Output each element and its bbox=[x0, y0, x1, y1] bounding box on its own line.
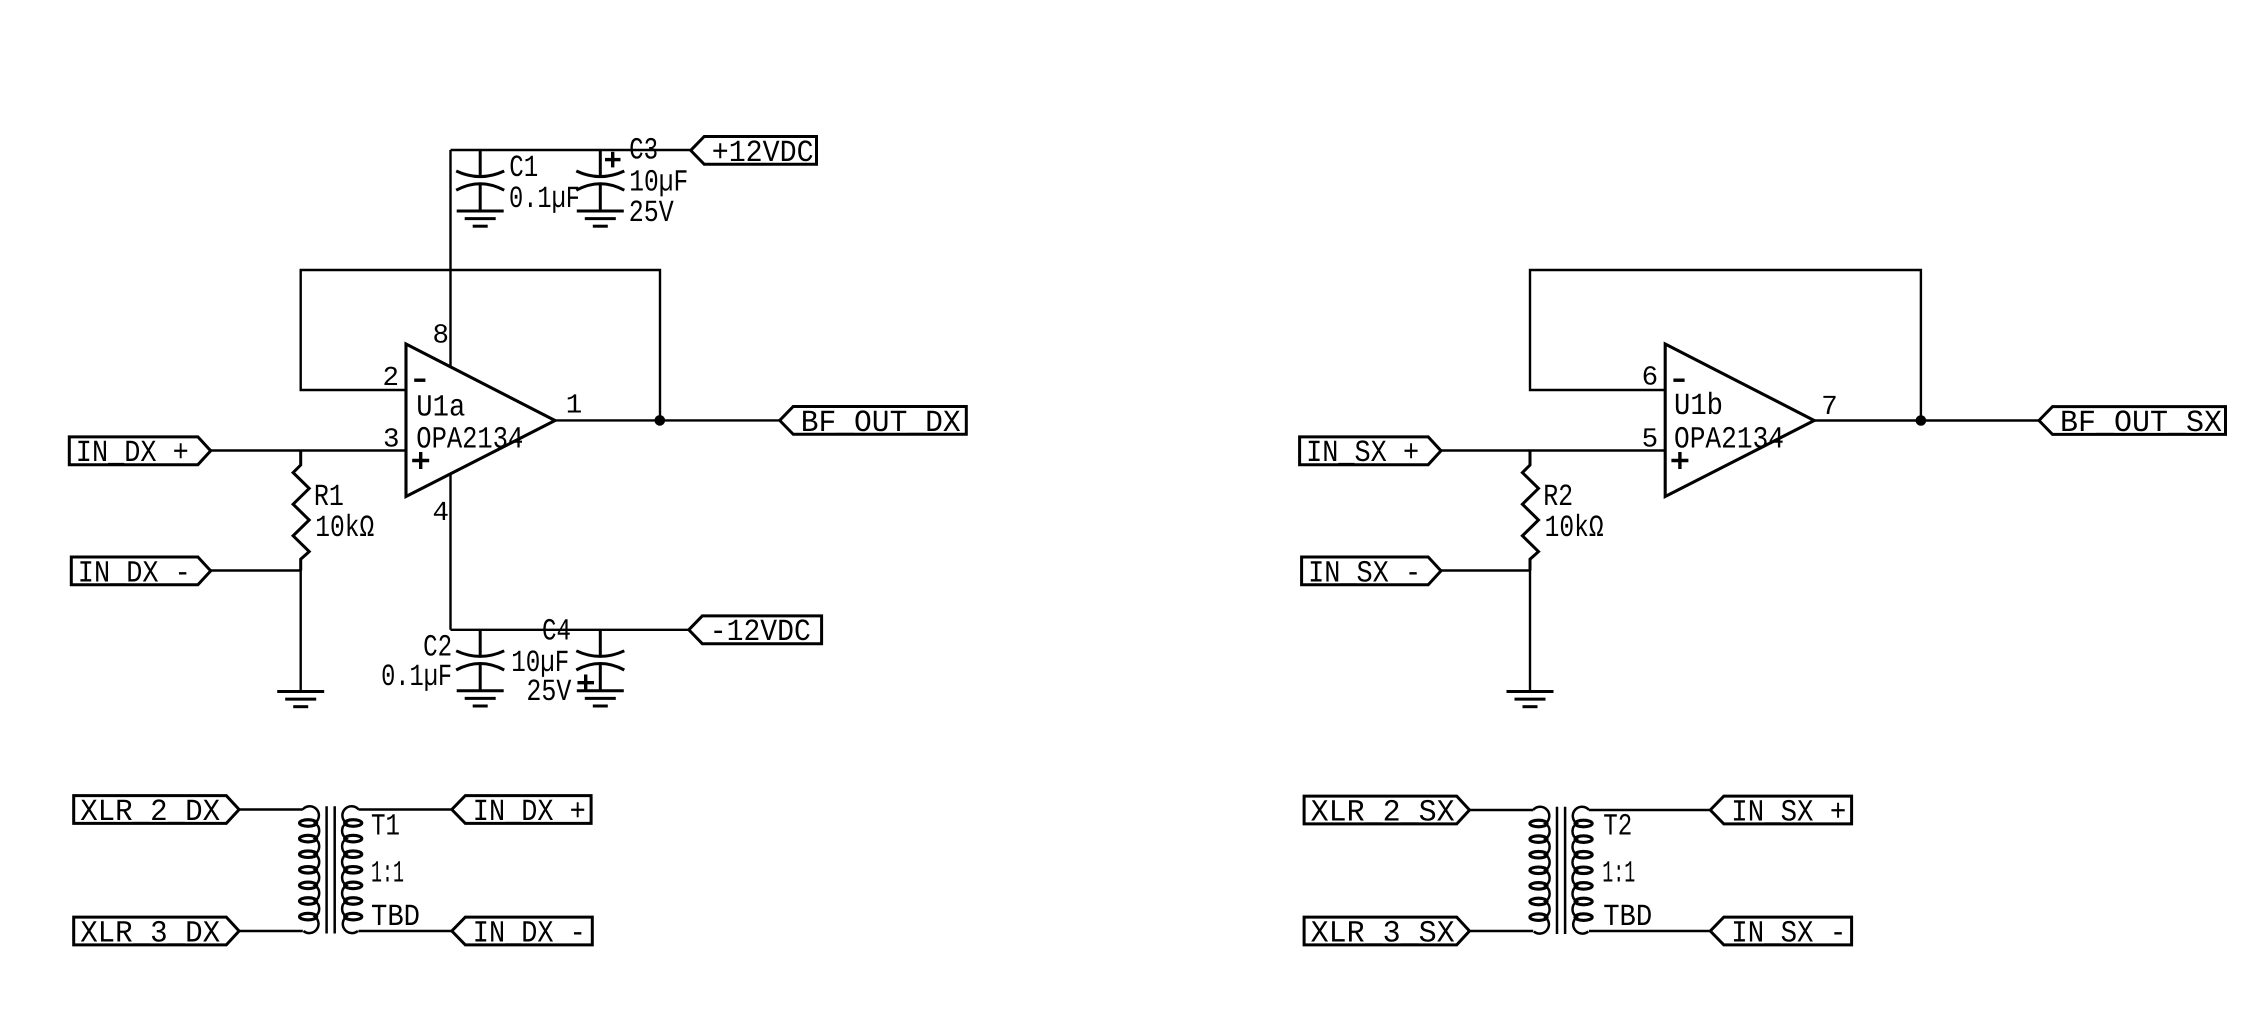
wire V- pin 4 supply bbox=[449, 473, 451, 629]
net BF_OUT_DX bbox=[780, 407, 967, 435]
wire feedback loop U1a bbox=[301, 270, 660, 420]
svg-text:1:1: 1:1 bbox=[371, 856, 404, 891]
svg-text:OPA2134: OPA2134 bbox=[1674, 423, 1784, 458]
polarity + mark of C4 bbox=[578, 675, 595, 691]
svg-text:U1a: U1a bbox=[416, 390, 465, 425]
wire T1 secondary bottom to IN_DX- bbox=[359, 930, 452, 932]
svg-text:OPA2134: OPA2134 bbox=[416, 423, 523, 458]
svg-text:XLR_2_DX: XLR_2_DX bbox=[80, 795, 220, 830]
transformer T2 bbox=[1530, 807, 1592, 934]
op-amp U1a bbox=[406, 344, 555, 497]
ground (R1) bbox=[277, 692, 324, 707]
svg-text:0.1µF: 0.1µF bbox=[509, 182, 580, 217]
svg-text:XLR_3_DX: XLR_3_DX bbox=[80, 916, 220, 951]
wire IN_DX- to R1 bbox=[211, 569, 301, 571]
ground (C2) bbox=[457, 691, 504, 706]
net IN_DX + (transformer) bbox=[452, 796, 591, 824]
svg-text:0.1µF: 0.1µF bbox=[381, 660, 452, 695]
svg-text:25V: 25V bbox=[629, 196, 674, 231]
svg-text:1: 1 bbox=[566, 391, 583, 422]
wire XLR_3_DX to T1 primary bottom bbox=[239, 930, 303, 932]
op-amp U1b bbox=[1665, 344, 1814, 497]
net XLR_2_DX bbox=[74, 796, 239, 824]
ground (C3) bbox=[577, 211, 624, 226]
net XLR_3_SX bbox=[1304, 917, 1469, 945]
net XLR_2_SX bbox=[1304, 796, 1469, 824]
svg-text:TBD: TBD bbox=[1603, 900, 1652, 935]
wire XLR_2_DX to T1 primary top bbox=[239, 808, 303, 810]
junction output node SX bbox=[1916, 415, 1927, 426]
svg-text:1:1: 1:1 bbox=[1602, 856, 1635, 891]
net IN_DX + (op-amp input) bbox=[69, 437, 210, 465]
wire XLR_3_SX to T2 primary bottom bbox=[1470, 930, 1534, 932]
wire IN_DX+ to pin 3 bbox=[211, 449, 406, 451]
svg-text:IN_SX -: IN_SX - bbox=[1308, 556, 1421, 591]
net IN_SX - (transformer) bbox=[1710, 917, 1851, 945]
wire XLR_2_SX to T2 primary top bbox=[1470, 809, 1534, 811]
svg-text:BF_OUT_SX: BF_OUT_SX bbox=[2060, 406, 2222, 441]
svg-text:BF_OUT_DX: BF_OUT_DX bbox=[801, 406, 961, 441]
net XLR_3_DX bbox=[74, 917, 239, 945]
wire T1 secondary top to IN_DX+ bbox=[359, 808, 452, 810]
svg-text:IN_DX -: IN_DX - bbox=[78, 556, 191, 591]
svg-text:IN_SX +: IN_SX + bbox=[1731, 795, 1846, 830]
wire IN_SX- to R2 bbox=[1441, 569, 1530, 571]
svg-text:R2: R2 bbox=[1543, 480, 1573, 515]
ground (R2) bbox=[1507, 692, 1554, 707]
net IN_DX - (transformer) bbox=[452, 917, 593, 945]
svg-text:C1: C1 bbox=[509, 151, 538, 186]
capacitor C4 (polarized) bbox=[576, 630, 624, 691]
wire output pin 1 to BF_OUT_DX bbox=[555, 419, 780, 421]
svg-text:IN_DX +: IN_DX + bbox=[76, 436, 189, 471]
svg-text:C3: C3 bbox=[629, 133, 658, 168]
wire -12V bottom rail bbox=[451, 629, 689, 631]
svg-text:4: 4 bbox=[432, 498, 449, 529]
wire output pin 7 to BF_OUT_SX bbox=[1814, 419, 2039, 421]
svg-text:-12VDC: -12VDC bbox=[710, 615, 811, 650]
svg-text:+12VDC: +12VDC bbox=[712, 136, 814, 171]
net +12VDC bbox=[691, 137, 817, 165]
svg-text:T1: T1 bbox=[371, 810, 400, 845]
svg-text:IN_SX +: IN_SX + bbox=[1306, 436, 1419, 471]
wire T2 secondary top to IN_SX+ bbox=[1589, 809, 1710, 811]
svg-text:8: 8 bbox=[432, 321, 449, 352]
ground (C1) bbox=[457, 211, 504, 226]
resistor R1 bbox=[293, 451, 309, 692]
wire T2 secondary bottom to IN_SX- bbox=[1589, 930, 1710, 932]
svg-text:6: 6 bbox=[1642, 363, 1659, 394]
wire IN_SX+ to pin 5 bbox=[1441, 449, 1665, 451]
svg-text:TBD: TBD bbox=[371, 900, 420, 935]
ground (C4) bbox=[577, 691, 624, 706]
svg-text:XLR_2_SX: XLR_2_SX bbox=[1311, 795, 1455, 830]
svg-text:IN_DX +: IN_DX + bbox=[473, 795, 586, 830]
svg-text:2: 2 bbox=[382, 363, 399, 394]
net BF_OUT_SX bbox=[2039, 407, 2226, 435]
resistor R2 bbox=[1522, 451, 1538, 692]
capacitor C3 (polarized) bbox=[576, 150, 624, 211]
net -12VDC bbox=[689, 616, 822, 644]
svg-text:IN_DX -: IN_DX - bbox=[473, 916, 586, 951]
svg-text:C4: C4 bbox=[542, 615, 571, 650]
svg-text:R1: R1 bbox=[314, 480, 344, 515]
svg-text:IN_SX -: IN_SX - bbox=[1731, 916, 1846, 951]
net IN_SX + (op-amp input) bbox=[1300, 437, 1441, 465]
svg-text:T2: T2 bbox=[1603, 810, 1632, 845]
svg-text:10kΩ: 10kΩ bbox=[1545, 511, 1604, 546]
transformer T1 bbox=[300, 806, 362, 933]
svg-text:XLR_3_SX: XLR_3_SX bbox=[1311, 916, 1455, 951]
net IN_DX - (op-amp input) bbox=[71, 557, 210, 585]
svg-text:7: 7 bbox=[1821, 392, 1838, 423]
svg-text:U1b: U1b bbox=[1674, 389, 1723, 424]
wire feedback loop U1b bbox=[1530, 270, 1921, 421]
wire +12V top rail bbox=[451, 149, 691, 151]
net IN_SX + (transformer) bbox=[1710, 796, 1851, 824]
capacitor C2 bbox=[456, 630, 504, 691]
svg-text:25V: 25V bbox=[526, 675, 571, 710]
polarity + mark of C3 bbox=[605, 152, 621, 168]
svg-text:10kΩ: 10kΩ bbox=[315, 511, 374, 546]
wire V+ pin 8 supply bbox=[449, 150, 451, 367]
junction output node DX bbox=[655, 415, 666, 426]
net IN_SX - (op-amp input) bbox=[1302, 557, 1441, 585]
capacitor C1 bbox=[456, 150, 504, 211]
